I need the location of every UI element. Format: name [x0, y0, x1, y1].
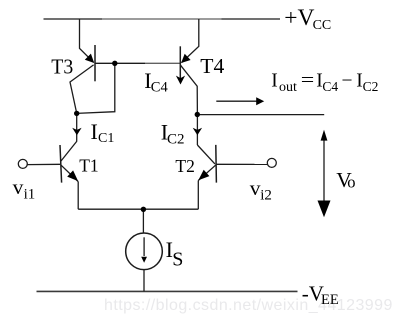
svg-text:+V: +V: [284, 5, 314, 31]
svg-text:=: =: [301, 71, 315, 92]
svg-text:v: v: [250, 176, 261, 200]
svg-text:C2: C2: [363, 79, 379, 94]
svg-text:out: out: [279, 80, 297, 95]
svg-text:T4: T4: [200, 54, 225, 78]
svg-text:C2: C2: [167, 132, 185, 148]
svg-text:T3: T3: [51, 54, 73, 78]
svg-text:C4: C4: [322, 79, 338, 94]
svg-text:S: S: [172, 249, 183, 271]
svg-text:EE: EE: [321, 292, 339, 308]
svg-text:C1: C1: [98, 131, 114, 146]
svg-text:I: I: [91, 119, 98, 144]
svg-text:T2: T2: [175, 156, 194, 176]
svg-text:i2: i2: [260, 188, 272, 204]
svg-text:v: v: [13, 175, 24, 199]
svg-text:C4: C4: [151, 80, 169, 96]
svg-text:i1: i1: [24, 186, 36, 202]
svg-text:I: I: [271, 71, 278, 92]
svg-text:https://blog.csdn.net/weixin_4: https://blog.csdn.net/weixin_44123999: [104, 297, 393, 314]
svg-text:−: −: [342, 71, 353, 92]
svg-text:T1: T1: [79, 156, 98, 176]
svg-text:CC: CC: [313, 18, 332, 33]
svg-text:o: o: [347, 173, 355, 192]
